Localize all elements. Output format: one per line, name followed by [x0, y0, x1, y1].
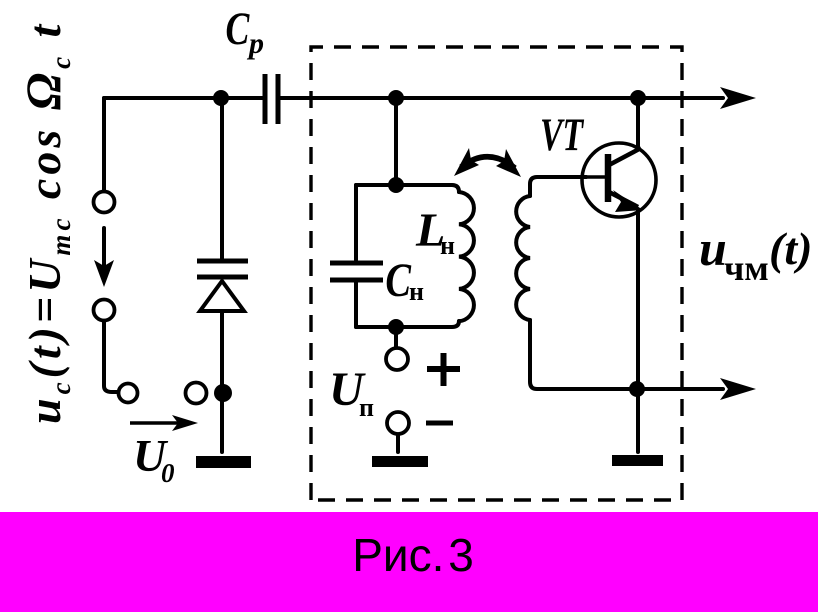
- svg-text:0: 0: [161, 458, 175, 488]
- svg-text:uc(t)=Umc cos Ωc t: uc(t)=Umc cos Ωc t: [15, 21, 76, 424]
- svg-text:u: u: [699, 220, 727, 276]
- svg-text:(t): (t): [769, 223, 812, 274]
- svg-text:п: п: [359, 393, 374, 422]
- svg-text:н: н: [440, 231, 455, 260]
- svg-text:н: н: [409, 277, 424, 306]
- svg-text:p: p: [246, 27, 264, 60]
- svg-text:VT: VT: [540, 109, 585, 161]
- svg-text:C: C: [385, 254, 412, 307]
- svg-text:чм: чм: [724, 248, 769, 288]
- svg-text:C: C: [225, 3, 250, 55]
